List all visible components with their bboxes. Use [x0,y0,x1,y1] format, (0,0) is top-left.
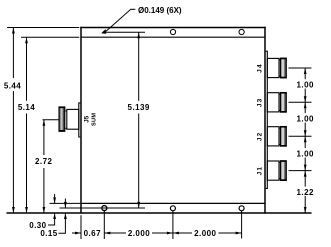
dim 5.14 arrow down [25,207,28,213]
dim 2.72 line upper segment [43,120,45,155]
connector J4 centerline leader [289,67,312,69]
connector J2 body [267,127,279,146]
connector J3 body [267,93,279,112]
svg-text:5.44: 5.44 [4,81,21,90]
dim 2.000 first line left segment [104,232,126,234]
svg-text:2.000: 2.000 [194,229,216,238]
enclosure left wall [80,27,82,214]
connector J3 centerline leader [289,101,312,103]
dim 0.15 upper arrow (down to step line) [64,199,66,208]
connector J5 shoulder [65,110,66,112]
dim 5.44 extension line top [7,27,79,29]
svg-text:1.00: 1.00 [297,114,314,123]
svg-text:Ø0.149 (6X): Ø0.149 (6X) [138,6,182,15]
dim 2.72 arrow up [43,120,46,126]
dim 2.000 first line right segment [152,232,173,234]
dim 2.72 line lower segment [43,168,45,213]
svg-text:J5: J5 [84,115,91,122]
connector J2 nut [280,127,286,147]
leader diagonal for hole callout [106,10,130,32]
hole bottom-left [102,206,107,211]
dim 0.30 leader [48,222,55,225]
svg-text:2.000: 2.000 [128,229,150,238]
svg-text:5.139: 5.139 [128,103,150,112]
svg-text:J2: J2 [257,131,264,141]
svg-text:J4: J4 [257,63,264,73]
dim 0.30 upper arrow (down to flange line) [54,194,56,203]
dim 0.15 leader [59,230,66,234]
dim 2.72 arrow down [43,207,46,213]
dim 5.139 line upper segment [138,32,140,101]
dim 5.14 line lower segment [26,114,28,214]
svg-text:SUM: SUM [92,113,98,126]
hole1 extension below [103,211,105,239]
svg-text:J3: J3 [257,97,264,107]
connector J3 nut [280,93,286,113]
dim 5.44 line lower segment [12,91,14,213]
dim 2.000 first arrows [104,232,110,235]
dim 2.72 extension line [43,119,59,121]
dim 5.44 arrow down [12,207,15,213]
dim 0.30 extension of flange line to the left [50,202,82,204]
dim 0.15 lower arrow (up to baseline) [64,213,66,230]
connector J1 shoulder [279,161,280,163]
connector J1 nut [280,161,286,181]
dim 5.44 arrow up [12,28,15,34]
connector J1 centerline leader [289,170,312,172]
connector J5 body [67,109,79,129]
right dim chain line J1-bottom [304,171,306,187]
dim 5.139 arrow up [137,32,140,38]
dim 5.44 line upper segment [12,28,14,79]
connector J4 body [267,58,279,77]
hole top-right [239,29,244,34]
dim 0.67 left outside arrow [72,232,81,234]
right dim chain line J4-J3 [304,68,306,79]
right dim chain line J2-J1 [304,136,306,148]
dim 2.000 second line left segment [173,232,192,234]
connector J5 nut [59,107,65,131]
connector J2 shoulder [279,127,280,129]
svg-text:0.67: 0.67 [84,229,101,238]
hole3 extension below [241,211,243,239]
leader arrowhead at hole [101,29,106,34]
enclosure right wall [264,27,266,214]
svg-text:5.14: 5.14 [18,103,35,112]
dim 2.000 second line right segment [219,232,242,234]
dim 5.139 line lower segment [138,114,140,208]
hole2 extension below [172,211,174,239]
hole bottom-right [239,206,244,211]
dim 5.14 line upper segment [26,37,28,101]
svg-text:1.00: 1.00 [297,149,314,158]
left wall extension below [80,215,82,239]
svg-text:0.15: 0.15 [40,229,57,238]
bottom flange step line [60,207,146,209]
dim 5.139 hole extension stub [104,31,145,33]
connector J4 shoulder [279,59,280,61]
enclosure top flange bottom line [81,36,265,38]
right connector mounting plate strip [266,51,268,188]
svg-text:1.00: 1.00 [297,80,314,89]
connector J2 centerline leader [289,135,312,137]
svg-text:2.72: 2.72 [35,157,52,166]
left connector mounting plate strip [79,103,81,137]
connector J3 shoulder [279,93,280,95]
dim 5.14 arrow up [25,37,28,43]
enclosure bottom edge baseline [7,212,312,214]
enclosure top edge [80,27,265,29]
hole top-middle [170,29,175,34]
svg-text:J1: J1 [257,166,264,176]
connector J1 body [267,161,279,180]
dim 2.000 second arrows [173,232,179,235]
right dim chain line J3-J2 [304,102,306,113]
hole bottom-middle [170,206,175,211]
connector J4 nut [280,58,286,78]
dim 0.30 lower arrow (up to baseline) [54,213,56,222]
enclosure bottom flange top line [81,202,265,204]
svg-text:1.22: 1.22 [297,188,314,197]
leader dash for hole callout [130,8,135,10]
dim 5.139 arrow down [137,202,140,208]
dim 5.14 extension line top [21,36,79,38]
